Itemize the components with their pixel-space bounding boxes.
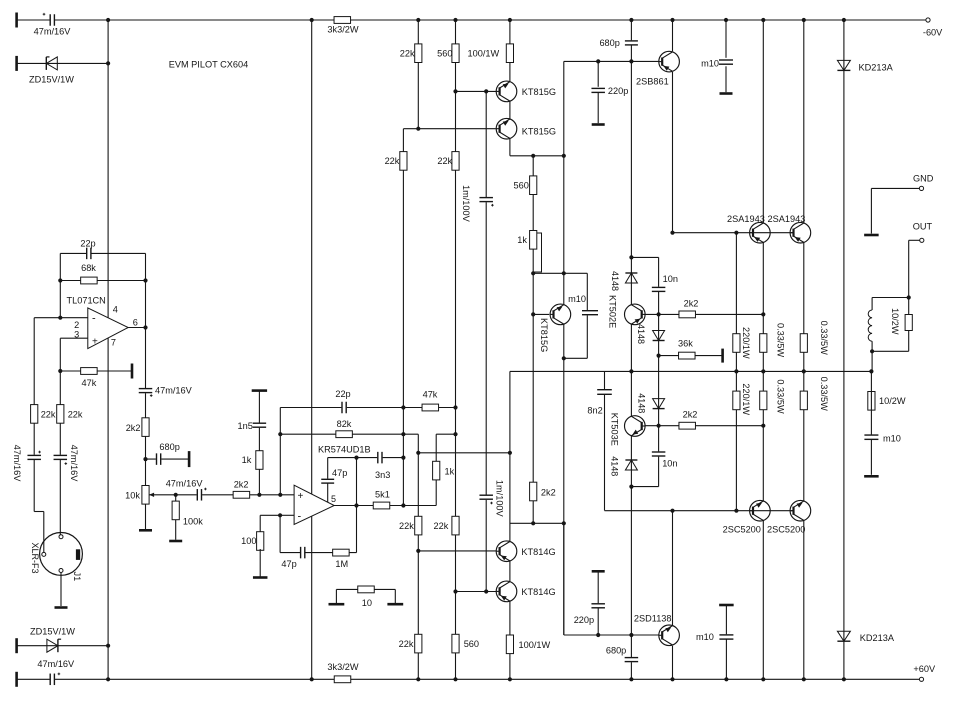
svg-text:KT815G: KT815G xyxy=(522,87,556,97)
svg-text:560: 560 xyxy=(514,181,529,191)
svg-text:4148: 4148 xyxy=(610,271,620,291)
svg-text:KD213A: KD213A xyxy=(859,63,894,73)
svg-text:GND: GND xyxy=(913,173,934,183)
svg-text:47m/16V: 47m/16V xyxy=(69,445,79,483)
svg-text:47p: 47p xyxy=(281,559,296,569)
svg-text:XLR-F3: XLR-F3 xyxy=(30,543,40,574)
svg-text:-60V: -60V xyxy=(923,28,943,38)
svg-text:10/2W: 10/2W xyxy=(879,396,906,406)
svg-text:TL071CN: TL071CN xyxy=(67,296,106,306)
svg-text:100/1W: 100/1W xyxy=(468,49,500,59)
svg-text:1m/100V: 1m/100V xyxy=(494,480,504,518)
svg-text:47k: 47k xyxy=(423,390,438,400)
svg-text:+60V: +60V xyxy=(913,664,936,674)
svg-text:+: + xyxy=(92,337,98,348)
svg-text:KT503E: KT503E xyxy=(610,413,620,446)
svg-text:0.33/5W: 0.33/5W xyxy=(776,323,786,358)
svg-text:22k: 22k xyxy=(399,521,414,531)
svg-text:1k: 1k xyxy=(517,235,527,245)
svg-text:3k3/2W: 3k3/2W xyxy=(327,662,358,672)
svg-text:680p: 680p xyxy=(606,646,626,656)
svg-text:22k: 22k xyxy=(434,521,449,531)
svg-text:KT815G: KT815G xyxy=(539,318,549,352)
svg-text:2SC5200: 2SC5200 xyxy=(723,525,761,535)
svg-text:10k: 10k xyxy=(125,491,140,501)
svg-text:KD213A: KD213A xyxy=(860,633,895,643)
svg-text:4: 4 xyxy=(113,304,118,314)
svg-text:47k: 47k xyxy=(81,378,96,388)
svg-text:1k: 1k xyxy=(445,466,455,476)
svg-text:3k3/2W: 3k3/2W xyxy=(327,25,358,35)
svg-text:22k: 22k xyxy=(399,639,414,649)
svg-text:2SD1138: 2SD1138 xyxy=(634,613,672,623)
svg-text:J1: J1 xyxy=(72,572,82,582)
svg-text:4148: 4148 xyxy=(636,324,646,344)
svg-text:680p: 680p xyxy=(599,38,619,48)
svg-text:4148: 4148 xyxy=(636,393,646,413)
svg-text:KT815G: KT815G xyxy=(522,126,556,136)
svg-text:10: 10 xyxy=(362,598,372,608)
svg-text:ZD15V/1W: ZD15V/1W xyxy=(29,74,74,84)
svg-text:100: 100 xyxy=(241,536,256,546)
svg-text:KT502E: KT502E xyxy=(608,295,618,328)
svg-text:m10: m10 xyxy=(883,434,901,444)
svg-text:2k2: 2k2 xyxy=(126,423,141,433)
svg-text:560: 560 xyxy=(464,639,479,649)
svg-text:2k2: 2k2 xyxy=(234,480,249,490)
svg-text:3n3: 3n3 xyxy=(375,470,390,480)
svg-text:m10: m10 xyxy=(568,294,586,304)
svg-text:-: - xyxy=(92,312,96,324)
svg-text:47m/16V: 47m/16V xyxy=(12,445,22,483)
svg-text:220p: 220p xyxy=(608,86,628,96)
svg-text:220/1W: 220/1W xyxy=(741,383,751,415)
svg-text:10/2W: 10/2W xyxy=(890,308,900,335)
svg-text:0.33/5W: 0.33/5W xyxy=(819,321,829,356)
svg-text:22k: 22k xyxy=(400,48,415,58)
svg-text:22k: 22k xyxy=(41,410,56,420)
svg-text:22p: 22p xyxy=(80,238,95,248)
svg-text:1n5: 1n5 xyxy=(238,421,253,431)
svg-text:8n2: 8n2 xyxy=(587,406,602,416)
svg-text:2SC5200: 2SC5200 xyxy=(767,525,805,535)
svg-text:220/1W: 220/1W xyxy=(741,327,751,359)
svg-text:2SA1943: 2SA1943 xyxy=(768,214,806,224)
svg-text:1k: 1k xyxy=(242,455,252,465)
svg-text:2SA1943: 2SA1943 xyxy=(727,214,765,224)
svg-text:47m/16V: 47m/16V xyxy=(166,478,204,488)
svg-text:1M: 1M xyxy=(335,559,348,569)
svg-text:47m/16V: 47m/16V xyxy=(34,27,72,37)
svg-text:2k2: 2k2 xyxy=(684,298,699,308)
svg-text:1m/100V: 1m/100V xyxy=(461,185,471,223)
svg-text:2SB861: 2SB861 xyxy=(636,76,669,86)
svg-text:m10: m10 xyxy=(696,632,714,642)
svg-text:10n: 10n xyxy=(663,274,678,284)
svg-text:m10: m10 xyxy=(701,59,719,69)
svg-text:2k2: 2k2 xyxy=(541,488,556,498)
svg-text:100k: 100k xyxy=(183,517,203,527)
svg-text:KT814G: KT814G xyxy=(521,547,555,557)
svg-text:7: 7 xyxy=(111,337,116,347)
svg-text:560: 560 xyxy=(437,48,452,58)
svg-text:OUT: OUT xyxy=(913,221,933,231)
svg-text:22k: 22k xyxy=(68,410,83,420)
svg-text:10n: 10n xyxy=(662,459,677,469)
svg-text:0.33/5W: 0.33/5W xyxy=(819,377,829,412)
svg-text:+: + xyxy=(298,491,304,502)
svg-text:22k: 22k xyxy=(385,156,400,166)
svg-text:22p: 22p xyxy=(335,389,350,399)
svg-text:82k: 82k xyxy=(337,419,352,429)
svg-text:5k1: 5k1 xyxy=(375,489,390,499)
svg-text:47m/16V: 47m/16V xyxy=(37,659,75,669)
svg-text:680p: 680p xyxy=(159,442,179,452)
svg-text:2k2: 2k2 xyxy=(683,409,698,419)
svg-text:0.33/5W: 0.33/5W xyxy=(776,379,786,414)
svg-text:5: 5 xyxy=(331,494,336,504)
svg-text:-: - xyxy=(298,511,302,523)
svg-text:36k: 36k xyxy=(678,338,693,348)
svg-text:ZD15V/1W: ZD15V/1W xyxy=(30,626,75,636)
svg-text:KT814G: KT814G xyxy=(521,587,555,597)
svg-text:47m/16V: 47m/16V xyxy=(155,386,193,396)
svg-text:KR574UD1B: KR574UD1B xyxy=(318,445,371,455)
svg-text:68k: 68k xyxy=(81,263,96,273)
svg-text:220p: 220p xyxy=(574,615,594,625)
svg-text:6: 6 xyxy=(133,317,138,327)
svg-text:47p: 47p xyxy=(332,468,347,478)
svg-text:EVM PILOT CX604: EVM PILOT CX604 xyxy=(169,60,249,70)
svg-text:4148: 4148 xyxy=(610,456,620,476)
svg-text:100/1W: 100/1W xyxy=(519,640,551,650)
svg-text:22k: 22k xyxy=(437,156,452,166)
